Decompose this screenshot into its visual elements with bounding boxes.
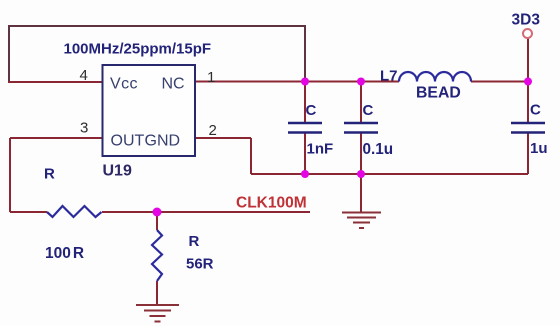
svg-text:L7: L7 [380, 68, 398, 85]
wire bottom ground rail [251, 173, 528, 175]
node junction (top wire / pin1 rail) [301, 78, 309, 86]
capacitor C 1u plates [511, 123, 545, 133]
svg-text:CLK100M: CLK100M [236, 195, 307, 212]
ground (under 56R) [136, 305, 179, 322]
wire resistor 56R bottom lead [156, 281, 158, 305]
wire top feedback loop left vertical [8, 25, 10, 82]
wire pin 3 OUT horizontal [10, 137, 103, 139]
svg-text:R: R [189, 233, 200, 250]
wire capacitor C 0.1u top lead [360, 82, 362, 123]
svg-text:NC: NC [162, 76, 185, 93]
svg-text:1nF: 1nF [307, 141, 334, 158]
wire ground lead under rail [360, 174, 362, 212]
svg-text:1u: 1u [530, 140, 548, 157]
wire pin 1 NC to coil [195, 81, 399, 83]
wire capacitor C 0.1u bottom lead [360, 132, 362, 174]
svg-text:R: R [44, 166, 55, 183]
svg-text:0.1u: 0.1u [363, 141, 394, 158]
wire top feedback loop horizontal [9, 25, 305, 27]
svg-text:U19: U19 [103, 163, 132, 180]
svg-text:4: 4 [80, 67, 88, 84]
op-amp U19 oscillator box [103, 65, 196, 156]
node junction (1nF bottom) [301, 170, 309, 178]
wire coil to 3D3 node [471, 81, 528, 83]
capacitor C 1nF plates [288, 123, 322, 133]
wire to resistor R 100R [10, 211, 47, 213]
wire capacitor C 1nF bottom lead [304, 132, 306, 174]
svg-text:100MHz/25ppm/15pF: 100MHz/25ppm/15pF [64, 41, 212, 58]
node junction (CLK100M / 56R) [153, 208, 162, 217]
wire pin 4 Vcc [8, 81, 103, 83]
wire pin 3 left vertical [9, 138, 11, 212]
svg-text:OUT: OUT [111, 133, 145, 150]
capacitor C 0.1u plates [344, 123, 378, 133]
wire 3D3 vertical [527, 38, 529, 123]
svg-text:2: 2 [209, 122, 217, 139]
svg-text:C: C [363, 102, 374, 119]
node junction (3D3 / rail) [524, 78, 532, 86]
node junction (0.1u top) [357, 78, 365, 86]
wire pin 2 GND horizontal [195, 137, 251, 139]
svg-text:56R: 56R [186, 256, 214, 273]
svg-text:1: 1 [207, 69, 215, 86]
node junction (0.1u bottom / ground) [357, 170, 365, 178]
resistor R1 100R zigzag [47, 206, 102, 217]
inductor L7 coil [399, 72, 471, 82]
svg-text:C: C [306, 102, 317, 119]
wire CLK100M net [102, 211, 310, 213]
resistor R2 56R zigzag [152, 230, 162, 281]
wire resistor 56R top lead [156, 212, 158, 230]
svg-text:GND: GND [145, 133, 181, 150]
power port 3D3 circle [523, 29, 532, 38]
wire capacitor C 1u bottom lead [527, 132, 529, 174]
svg-text:BEAD: BEAD [416, 85, 461, 102]
svg-text:Vcc: Vcc [110, 76, 138, 93]
wire top feedback loop right vertical [304, 25, 306, 82]
svg-text:100R: 100R [45, 245, 84, 262]
svg-text:3D3: 3D3 [512, 12, 541, 29]
wire pin 2 GND vertical [250, 138, 252, 174]
svg-text:3: 3 [80, 120, 88, 137]
ground (under bottom rail) [342, 213, 381, 229]
wire capacitor C 1nF top lead [304, 82, 306, 123]
svg-text:C: C [530, 102, 541, 119]
